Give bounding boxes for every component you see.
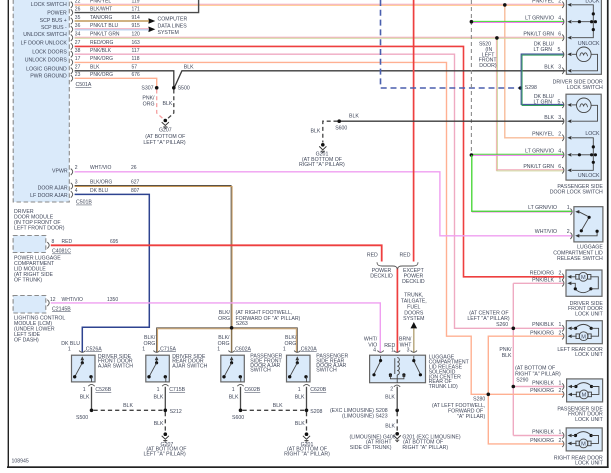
svg-text:DATA LINES: DATA LINES xyxy=(158,24,188,30)
svg-text:914: 914 xyxy=(132,15,141,21)
svg-text:1: 1 xyxy=(68,346,71,352)
svg-text:BLK: BLK xyxy=(153,395,163,401)
svg-text:C715B: C715B xyxy=(169,387,185,393)
svg-text:VPWR: VPWR xyxy=(52,168,68,174)
svg-text:C2145B: C2145B xyxy=(52,306,71,312)
svg-text:BLK: BLK xyxy=(295,395,305,401)
svg-text:1: 1 xyxy=(232,387,235,393)
svg-text:1: 1 xyxy=(298,387,301,393)
svg-text:COMPUTER: COMPUTER xyxy=(158,17,188,23)
svg-text:LOCK UNIT: LOCK UNIT xyxy=(575,461,604,467)
svg-text:LT GRN/VIO: LT GRN/VIO xyxy=(528,205,557,211)
svg-text:6: 6 xyxy=(558,164,561,170)
svg-text:120: 120 xyxy=(132,32,141,38)
svg-text:LOCK UNIT: LOCK UNIT xyxy=(575,311,604,317)
svg-text:ORG: ORG xyxy=(143,102,155,108)
svg-text:163: 163 xyxy=(132,40,141,46)
svg-text:RED: RED xyxy=(62,239,73,245)
svg-text:4: 4 xyxy=(75,188,78,194)
svg-text:26: 26 xyxy=(131,165,137,171)
svg-text:RELEASE SWITCH: RELEASE SWITCH xyxy=(557,256,603,262)
svg-text:BLK: BLK xyxy=(80,395,90,401)
svg-text:27: 27 xyxy=(75,65,81,71)
svg-text:BLK: BLK xyxy=(90,65,100,71)
svg-text:38: 38 xyxy=(75,48,81,54)
svg-text:POWER: POWER xyxy=(47,11,67,17)
svg-text:PNK/ORG: PNK/ORG xyxy=(530,330,554,336)
svg-text:LOGIC GROUND: LOGIC GROUND xyxy=(26,66,67,72)
svg-text:8: 8 xyxy=(52,239,55,245)
svg-text:LOCK UNIT: LOCK UNIT xyxy=(575,417,604,423)
svg-text:PNK/BLK: PNK/BLK xyxy=(532,278,554,284)
svg-text:(AT BOTTOM OF: (AT BOTTOM OF xyxy=(145,134,185,140)
svg-text:BLK: BLK xyxy=(123,403,133,409)
svg-text:UNLOCK: UNLOCK xyxy=(578,173,600,179)
svg-text:117: 117 xyxy=(132,48,140,54)
svg-text:UNLOCK: UNLOCK xyxy=(578,41,600,47)
svg-text:1: 1 xyxy=(217,346,220,352)
svg-text:BLK: BLK xyxy=(385,395,395,401)
svg-text:12: 12 xyxy=(50,297,56,303)
svg-text:G207: G207 xyxy=(159,128,172,134)
svg-text:DK BLU: DK BLU xyxy=(90,188,108,194)
svg-text:2: 2 xyxy=(558,131,561,137)
svg-text:LOCK: LOCK xyxy=(585,131,600,137)
svg-text:36: 36 xyxy=(75,23,81,29)
svg-text:S263: S263 xyxy=(236,321,248,327)
svg-text:627: 627 xyxy=(131,180,140,186)
svg-text:BLK: BLK xyxy=(385,423,395,429)
svg-text:C4081C: C4081C xyxy=(52,249,71,255)
svg-text:BLK: BLK xyxy=(154,421,164,427)
svg-text:S298: S298 xyxy=(525,85,537,91)
svg-text:LOCK SWITCH: LOCK SWITCH xyxy=(31,2,67,8)
svg-text:LT GRN/VIO: LT GRN/VIO xyxy=(525,148,554,154)
svg-text:BLK: BLK xyxy=(184,64,194,70)
svg-text:LT GRN: LT GRN xyxy=(533,99,552,105)
svg-text:PNK/YEL: PNK/YEL xyxy=(532,0,554,5)
svg-text:PNK/LT GRN: PNK/LT GRN xyxy=(90,32,120,38)
svg-text:57: 57 xyxy=(132,65,138,71)
svg-text:DECKLID: DECKLID xyxy=(370,273,393,279)
svg-text:23: 23 xyxy=(75,72,81,78)
svg-text:C526A: C526A xyxy=(86,346,102,352)
svg-text:S600: S600 xyxy=(232,415,244,421)
svg-text:C501B: C501B xyxy=(76,200,92,206)
svg-text:SCP BUS +: SCP BUS + xyxy=(40,18,67,24)
svg-text:3: 3 xyxy=(75,180,78,186)
svg-text:1: 1 xyxy=(391,348,394,354)
svg-text:3: 3 xyxy=(558,115,561,121)
svg-text:WHT/VIO: WHT/VIO xyxy=(62,297,83,303)
svg-text:AJAR SWITCH: AJAR SWITCH xyxy=(172,363,207,369)
svg-text:DOOR): DOOR) xyxy=(479,63,497,69)
svg-text:C602B: C602B xyxy=(244,387,260,393)
svg-text:34: 34 xyxy=(75,32,81,38)
svg-text:UNLOCK SWITCH: UNLOCK SWITCH xyxy=(23,32,67,38)
svg-text:PNK/ORG: PNK/ORG xyxy=(530,438,554,444)
svg-text:BLK: BLK xyxy=(544,64,554,70)
svg-text:LOCK SWITCH: LOCK SWITCH xyxy=(567,85,603,91)
svg-text:1: 1 xyxy=(559,278,562,284)
svg-text:LEFT "A" PILLAR): LEFT "A" PILLAR) xyxy=(143,452,185,458)
svg-text:PNK/BLK: PNK/BLK xyxy=(90,48,112,54)
svg-text:LF DOOR AJAR: LF DOOR AJAR xyxy=(30,193,68,199)
svg-text:LF DOOR UNLOCK: LF DOOR UNLOCK xyxy=(21,41,68,47)
svg-text:SWITCH: SWITCH xyxy=(316,368,337,374)
svg-text:1: 1 xyxy=(142,346,145,352)
svg-text:4: 4 xyxy=(373,348,376,354)
svg-text:AJAR SWITCH: AJAR SWITCH xyxy=(98,363,133,369)
svg-text:SWITCH: SWITCH xyxy=(250,368,271,374)
svg-text:807: 807 xyxy=(131,188,140,194)
svg-text:LT GRN: LT GRN xyxy=(533,47,552,53)
svg-text:RIGHT "A" PILLAR): RIGHT "A" PILLAR) xyxy=(299,162,345,168)
svg-text:BLK: BLK xyxy=(229,395,239,401)
svg-text:RED: RED xyxy=(367,253,378,259)
svg-text:1: 1 xyxy=(567,205,570,211)
svg-text:2: 2 xyxy=(75,165,78,171)
svg-text:PNK/BLK: PNK/BLK xyxy=(532,322,554,328)
svg-text:LEFT "A" PILLAR): LEFT "A" PILLAR) xyxy=(143,140,185,146)
svg-text:WHT/VIO: WHT/VIO xyxy=(535,229,557,235)
svg-text:LT GRN/VIO: LT GRN/VIO xyxy=(525,15,554,21)
svg-text:1: 1 xyxy=(283,346,286,352)
svg-text:17: 17 xyxy=(75,56,81,62)
svg-text:BLK: BLK xyxy=(162,101,172,107)
svg-text:S307: S307 xyxy=(141,86,153,92)
svg-text:2: 2 xyxy=(567,229,570,235)
svg-text:4: 4 xyxy=(558,15,561,21)
svg-text:35: 35 xyxy=(75,15,81,21)
svg-text:SYSTEM: SYSTEM xyxy=(403,316,424,322)
svg-text:108945: 108945 xyxy=(12,459,29,465)
svg-text:C501A: C501A xyxy=(76,82,92,88)
svg-text:BLK: BLK xyxy=(295,421,305,427)
svg-text:OF TRUNK): OF TRUNK) xyxy=(14,278,42,284)
svg-text:DECKLID: DECKLID xyxy=(402,279,425,285)
svg-text:26: 26 xyxy=(75,7,81,13)
svg-text:S290: S290 xyxy=(516,377,528,383)
svg-text:S212: S212 xyxy=(170,409,182,415)
svg-text:6: 6 xyxy=(558,31,561,37)
svg-text:676: 676 xyxy=(132,72,141,78)
svg-text:S500: S500 xyxy=(178,86,190,92)
svg-text:2: 2 xyxy=(559,388,562,394)
svg-text:ORG: ORG xyxy=(143,341,155,347)
svg-text:PNK/YEL: PNK/YEL xyxy=(532,131,554,137)
svg-text:5: 5 xyxy=(558,99,561,105)
svg-text:1: 1 xyxy=(83,387,86,393)
svg-text:2: 2 xyxy=(559,330,562,336)
svg-text:PWR GROUND: PWR GROUND xyxy=(30,74,67,80)
svg-text:4: 4 xyxy=(558,148,561,154)
svg-text:ORG: ORG xyxy=(218,316,230,322)
svg-text:PNK/ORG: PNK/ORG xyxy=(90,72,113,78)
svg-text:2: 2 xyxy=(559,438,562,444)
svg-text:WHT/VIO: WHT/VIO xyxy=(90,165,111,171)
svg-text:PNK/BLK: PNK/BLK xyxy=(532,380,554,386)
svg-text:SCP BUS -: SCP BUS - xyxy=(41,25,67,31)
svg-text:27: 27 xyxy=(75,40,81,46)
svg-text:5: 5 xyxy=(558,47,561,53)
svg-text:BLK: BLK xyxy=(310,128,320,134)
svg-text:RED/ORG: RED/ORG xyxy=(530,271,554,277)
svg-text:2: 2 xyxy=(558,0,561,5)
svg-text:RED/ORG: RED/ORG xyxy=(90,40,113,46)
svg-text:915: 915 xyxy=(132,23,141,29)
svg-text:2: 2 xyxy=(390,386,393,392)
svg-text:BLK/WHT: BLK/WHT xyxy=(90,7,112,13)
svg-text:RED: RED xyxy=(400,253,411,259)
svg-text:PNK/ORG: PNK/ORG xyxy=(530,388,554,394)
svg-text:2: 2 xyxy=(559,271,562,277)
svg-text:PNK/LT BLU: PNK/LT BLU xyxy=(90,23,119,29)
svg-text:BLK/ORG: BLK/ORG xyxy=(90,180,112,186)
svg-text:LOCK DOORS: LOCK DOORS xyxy=(32,50,67,56)
svg-text:BLK: BLK xyxy=(349,114,359,120)
svg-text:SIDE OF TRUNK): SIDE OF TRUNK) xyxy=(350,445,392,451)
svg-text:RIGHT "A" PILLAR): RIGHT "A" PILLAR) xyxy=(402,445,448,451)
svg-text:3: 3 xyxy=(558,64,561,70)
svg-text:S260: S260 xyxy=(496,322,508,328)
svg-text:BLK: BLK xyxy=(273,403,283,409)
svg-text:BLK: BLK xyxy=(544,115,554,121)
svg-text:695: 695 xyxy=(110,239,119,245)
svg-text:(LIMOUSINE) S423: (LIMOUSINE) S423 xyxy=(342,414,388,420)
svg-text:SYSTEM: SYSTEM xyxy=(158,30,179,36)
svg-text:C526B: C526B xyxy=(95,387,111,393)
svg-text:LEFT FRONT DOOR): LEFT FRONT DOOR) xyxy=(14,225,65,231)
svg-text:OF DASH): OF DASH) xyxy=(14,338,39,344)
svg-text:BLK: BLK xyxy=(502,353,512,359)
svg-text:S208: S208 xyxy=(310,409,322,415)
svg-text:UNLOCK DOORS: UNLOCK DOORS xyxy=(25,57,68,63)
svg-text:1: 1 xyxy=(559,380,562,386)
svg-text:C620A: C620A xyxy=(301,346,317,352)
svg-text:1350: 1350 xyxy=(107,297,118,303)
svg-text:PNK/BLK: PNK/BLK xyxy=(532,429,554,435)
svg-text:PNK/LT GRN: PNK/LT GRN xyxy=(523,164,554,170)
svg-text:PNK/LT GRN: PNK/LT GRN xyxy=(523,31,554,37)
svg-text:1: 1 xyxy=(157,387,160,393)
svg-text:TRUNK LID): TRUNK LID) xyxy=(429,384,458,390)
svg-text:171: 171 xyxy=(132,7,141,13)
svg-text:1: 1 xyxy=(559,322,562,328)
svg-text:S280: S280 xyxy=(473,396,485,402)
svg-text:1: 1 xyxy=(559,429,562,435)
svg-text:DOOR LOCK SWITCH: DOOR LOCK SWITCH xyxy=(550,189,603,195)
svg-text:3: 3 xyxy=(407,348,410,354)
svg-text:LOCK: LOCK xyxy=(585,0,600,4)
svg-text:DOOR AJAR: DOOR AJAR xyxy=(38,186,68,192)
svg-text:"A" PILLAR): "A" PILLAR) xyxy=(457,414,485,420)
svg-text:ORG: ORG xyxy=(284,341,296,347)
svg-text:C620B: C620B xyxy=(310,387,326,393)
svg-text:S500: S500 xyxy=(76,415,88,421)
svg-text:PNK/ORG: PNK/ORG xyxy=(90,56,113,62)
svg-text:TAN/ORG: TAN/ORG xyxy=(90,15,113,21)
svg-text:RIGHT "A" PILLAR): RIGHT "A" PILLAR) xyxy=(284,452,330,458)
svg-text:C715A: C715A xyxy=(160,346,176,352)
svg-text:LOCK UNIT: LOCK UNIT xyxy=(575,352,604,358)
svg-text:S600: S600 xyxy=(335,126,347,132)
svg-text:C602A: C602A xyxy=(235,346,251,352)
svg-text:118: 118 xyxy=(132,56,140,62)
